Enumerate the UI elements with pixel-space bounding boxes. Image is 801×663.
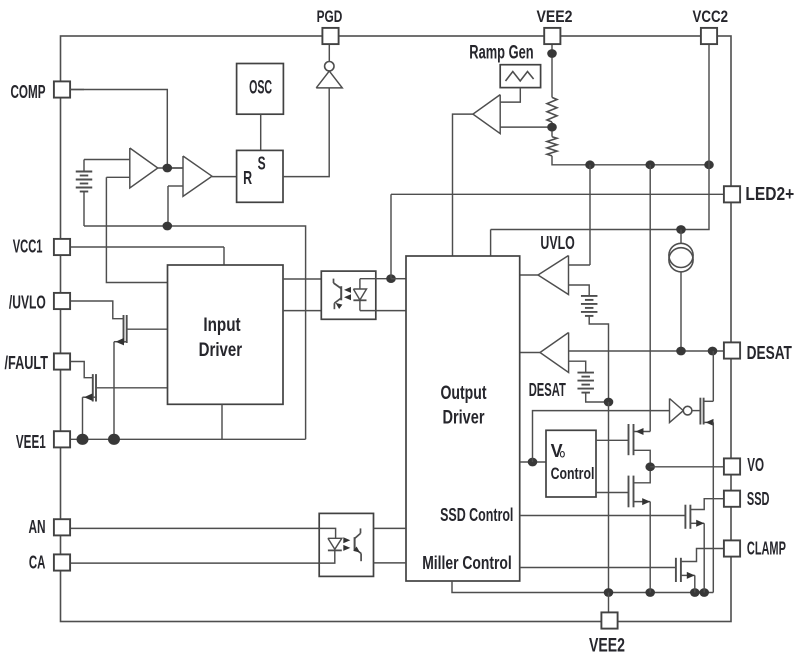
svg-text:VEE1: VEE1: [16, 432, 46, 452]
svg-text:Ramp Gen: Ramp Gen: [469, 42, 533, 63]
svg-text:COMP: COMP: [11, 82, 46, 102]
svg-text:VEE2: VEE2: [537, 7, 573, 26]
svg-text:Driver: Driver: [199, 339, 243, 361]
svg-text:S: S: [258, 154, 266, 174]
svg-text:/UVLO: /UVLO: [9, 293, 46, 313]
svg-text:Output: Output: [441, 382, 487, 404]
svg-text:Control: Control: [551, 464, 595, 483]
svg-text:Miller Control: Miller Control: [422, 553, 512, 573]
svg-text:VEE2: VEE2: [589, 636, 625, 657]
svg-text:VCC2: VCC2: [693, 7, 729, 26]
svg-text:Input: Input: [203, 314, 241, 336]
svg-text:SSD: SSD: [747, 489, 770, 509]
svg-text:VO: VO: [747, 455, 764, 475]
svg-text:/FAULT: /FAULT: [5, 353, 49, 373]
svg-text:AN: AN: [29, 517, 46, 537]
svg-text:CA: CA: [29, 552, 46, 572]
svg-text:DESAT: DESAT: [747, 343, 792, 363]
svg-text:PGD: PGD: [317, 7, 343, 26]
svg-text:R: R: [243, 168, 252, 188]
svg-text:CLAMP: CLAMP: [747, 538, 786, 558]
svg-text:LED2+: LED2+: [745, 184, 794, 204]
svg-text:UVLO: UVLO: [540, 233, 574, 253]
svg-text:DESAT: DESAT: [529, 380, 566, 400]
svg-text:O: O: [560, 450, 566, 461]
svg-text:SSD Control: SSD Control: [440, 505, 513, 525]
svg-text:OSC: OSC: [249, 77, 272, 98]
svg-text:VCC1: VCC1: [13, 237, 43, 257]
svg-text:Driver: Driver: [443, 406, 485, 428]
